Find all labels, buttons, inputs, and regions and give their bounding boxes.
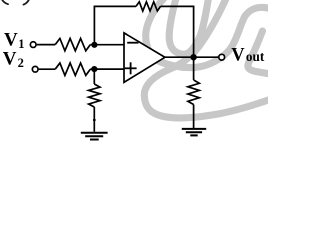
- svg-text:out: out: [246, 49, 265, 64]
- svg-text:V: V: [4, 30, 18, 51]
- svg-text:1: 1: [18, 37, 24, 51]
- svg-text:V: V: [3, 48, 17, 69]
- svg-text:V: V: [231, 46, 245, 66]
- svg-text:2: 2: [18, 56, 24, 70]
